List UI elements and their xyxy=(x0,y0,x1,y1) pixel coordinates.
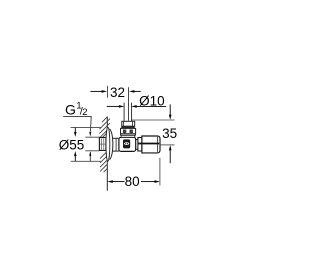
dim 35 axis ext line xyxy=(160,144,174,146)
rosette bell arc xyxy=(109,129,112,160)
dia55 ext bottom xyxy=(71,160,101,162)
wall hatch upper xyxy=(99,117,110,138)
handle collar xyxy=(138,138,142,152)
nut rim xyxy=(121,134,136,136)
G1/2 underline xyxy=(63,115,91,117)
dia55 lower arrow xyxy=(74,151,77,161)
dim 35 upper arrow xyxy=(169,104,172,119)
rosette collar edge xyxy=(115,139,117,151)
dim 32 right arrow xyxy=(129,90,141,93)
rosette collar bottom xyxy=(113,150,119,152)
compression nut hex xyxy=(121,128,136,133)
pipe centerline / dim32 right ext xyxy=(128,87,130,121)
olive ring xyxy=(122,121,135,126)
dia10 leader right arrow with underline xyxy=(131,105,166,108)
handle face line xyxy=(157,137,159,152)
dim 80 right ext line xyxy=(159,158,161,186)
dim 32 left arrow xyxy=(90,90,107,93)
svg-text:80: 80 xyxy=(125,174,140,189)
dia55 upper arrow xyxy=(74,128,77,137)
svg-text:35: 35 xyxy=(162,126,177,141)
wall line xyxy=(106,117,108,191)
svg-text:Ø55: Ø55 xyxy=(59,137,85,152)
wall hatch lower xyxy=(100,151,108,172)
axis centerline at stub xyxy=(100,143,112,145)
wall nut/stub xyxy=(99,138,107,151)
svg-text:32: 32 xyxy=(110,85,125,100)
G1/2 text xyxy=(65,101,87,118)
valve body xyxy=(119,137,136,151)
dim 80 left arrow xyxy=(107,180,124,183)
tailpiece thread top xyxy=(85,136,99,138)
rosette collar top xyxy=(113,137,119,139)
dia55 lower leader segment xyxy=(89,151,91,161)
neck to handle xyxy=(136,140,138,150)
dim 35 top ext line xyxy=(132,119,175,121)
nut dark band xyxy=(121,126,135,128)
dim 32 left ext line xyxy=(107,86,109,98)
handle knob xyxy=(142,136,160,153)
tailpiece thread bottom xyxy=(85,150,99,152)
dia55 ext top xyxy=(71,126,101,128)
pipe xyxy=(124,103,132,122)
G1/2 leader arrow xyxy=(89,116,91,136)
rosette base ellipse xyxy=(106,127,110,161)
dim 80 right arrow xyxy=(141,180,160,183)
GROHE emblem xyxy=(123,139,130,148)
dia10 leader left arrow xyxy=(107,105,125,108)
dim 35 lower arrow xyxy=(169,145,172,163)
washer under nut xyxy=(121,135,135,137)
handle center groove xyxy=(138,143,159,145)
svg-text:G: G xyxy=(65,101,76,117)
svg-text:Ø10: Ø10 xyxy=(139,94,165,109)
